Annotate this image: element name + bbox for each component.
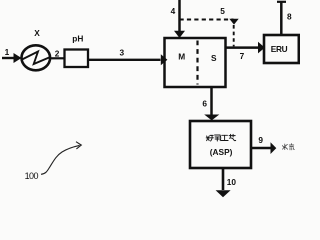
svg-text:(ASP): (ASP) <box>210 147 233 157</box>
svg-text:8: 8 <box>287 12 292 22</box>
svg-text:100: 100 <box>25 171 39 181</box>
svg-text:X: X <box>34 28 40 38</box>
svg-text:4: 4 <box>171 6 176 16</box>
svg-text:9: 9 <box>258 135 263 145</box>
svg-text:ERU: ERU <box>271 44 288 54</box>
svg-text:M: M <box>178 52 185 62</box>
svg-text:3: 3 <box>120 48 125 58</box>
svg-text:pH: pH <box>72 34 83 44</box>
svg-text:6: 6 <box>202 98 207 108</box>
svg-text:5: 5 <box>220 6 225 16</box>
svg-text:10: 10 <box>227 177 237 187</box>
svg-text:2: 2 <box>55 49 60 59</box>
svg-text:1: 1 <box>5 47 10 57</box>
svg-text:7: 7 <box>240 51 245 61</box>
svg-text:S: S <box>211 53 217 63</box>
